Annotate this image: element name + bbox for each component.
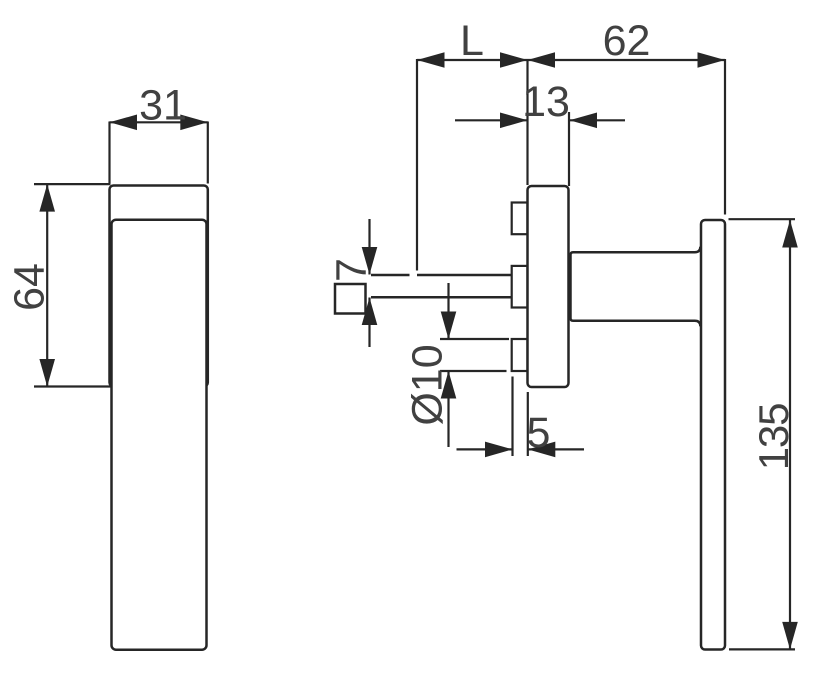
svg-text:L: L (460, 17, 484, 65)
handle grip (side view) (701, 220, 725, 650)
dim 135 line (789, 220, 791, 649)
tab middle (side view) (512, 266, 528, 308)
svg-text:135: 135 (750, 404, 797, 470)
dim 64 extension top (34, 183, 111, 185)
dim 135 extension bottom (729, 648, 795, 650)
dim 31 extension right (207, 122, 209, 184)
svg-text:62: 62 (603, 17, 651, 65)
dim 5 extension right (527, 392, 529, 456)
dim d10 line bottom (447, 371, 449, 447)
svg-text:Ø10: Ø10 (404, 344, 452, 425)
spindle square end (side view) (335, 284, 366, 314)
dim extension mid (rosette left) (526, 59, 528, 185)
spindle shaft top edge (371, 274, 511, 277)
dim 31 line (110, 121, 208, 123)
dim 13 line right (570, 119, 626, 121)
arrow 135 top (782, 220, 798, 248)
dim 31 extension left (108, 122, 110, 184)
dim d10 extension bottom (440, 370, 507, 372)
dim 5 line right (528, 448, 584, 450)
arrow 7 bottom (362, 298, 378, 326)
svg-text:31: 31 (139, 82, 187, 130)
arrow 31 left (110, 115, 138, 131)
rosette plate (front view) (110, 186, 208, 387)
arrow 5 right (528, 442, 556, 458)
dim 5 extension left (511, 377, 513, 457)
dim L extension left (416, 59, 418, 271)
arrow 13 right (570, 113, 598, 129)
dim 135 extension top (729, 218, 796, 220)
arrow L left (417, 52, 445, 68)
arrow d10 top (441, 312, 457, 340)
spindle shaft bottom edge (371, 296, 511, 299)
dim 13 extension right (568, 112, 570, 186)
arrow 62 left (528, 52, 556, 68)
dim 13 line left (455, 119, 528, 121)
dim 62 extension right (724, 59, 726, 215)
dim d10 extension top (440, 338, 509, 340)
svg-text:64: 64 (6, 263, 54, 311)
svg-text:13: 13 (522, 78, 570, 126)
dim 7 line bottom (368, 298, 370, 348)
arrow 64 top (39, 184, 55, 212)
dim 64 line (46, 184, 48, 386)
arrow L right (500, 52, 528, 68)
arrow 31 right (180, 115, 208, 131)
arrow 62 right (698, 52, 726, 68)
arrow 7 top (362, 247, 378, 275)
arrow 5 left (485, 442, 513, 458)
arrow 13 left (500, 113, 528, 129)
svg-text:5: 5 (527, 409, 551, 457)
dim 64 extension bottom (34, 385, 112, 387)
handle neck (side view) (571, 247, 701, 327)
dim d10 line top (447, 283, 449, 339)
tab bottom (side view) (512, 339, 528, 371)
arrow d10 bottom (441, 371, 457, 399)
tab top (side view) (512, 203, 528, 235)
svg-text:7: 7 (328, 258, 376, 282)
rosette plate (side view) (528, 186, 569, 387)
dim 5 line left (457, 448, 513, 450)
arrow 135 bottom (782, 622, 798, 650)
arrow 64 bottom (39, 359, 55, 387)
dim 7 line top (368, 219, 370, 275)
handle lever (front view) (112, 220, 207, 650)
dim L/62 line (417, 59, 725, 61)
